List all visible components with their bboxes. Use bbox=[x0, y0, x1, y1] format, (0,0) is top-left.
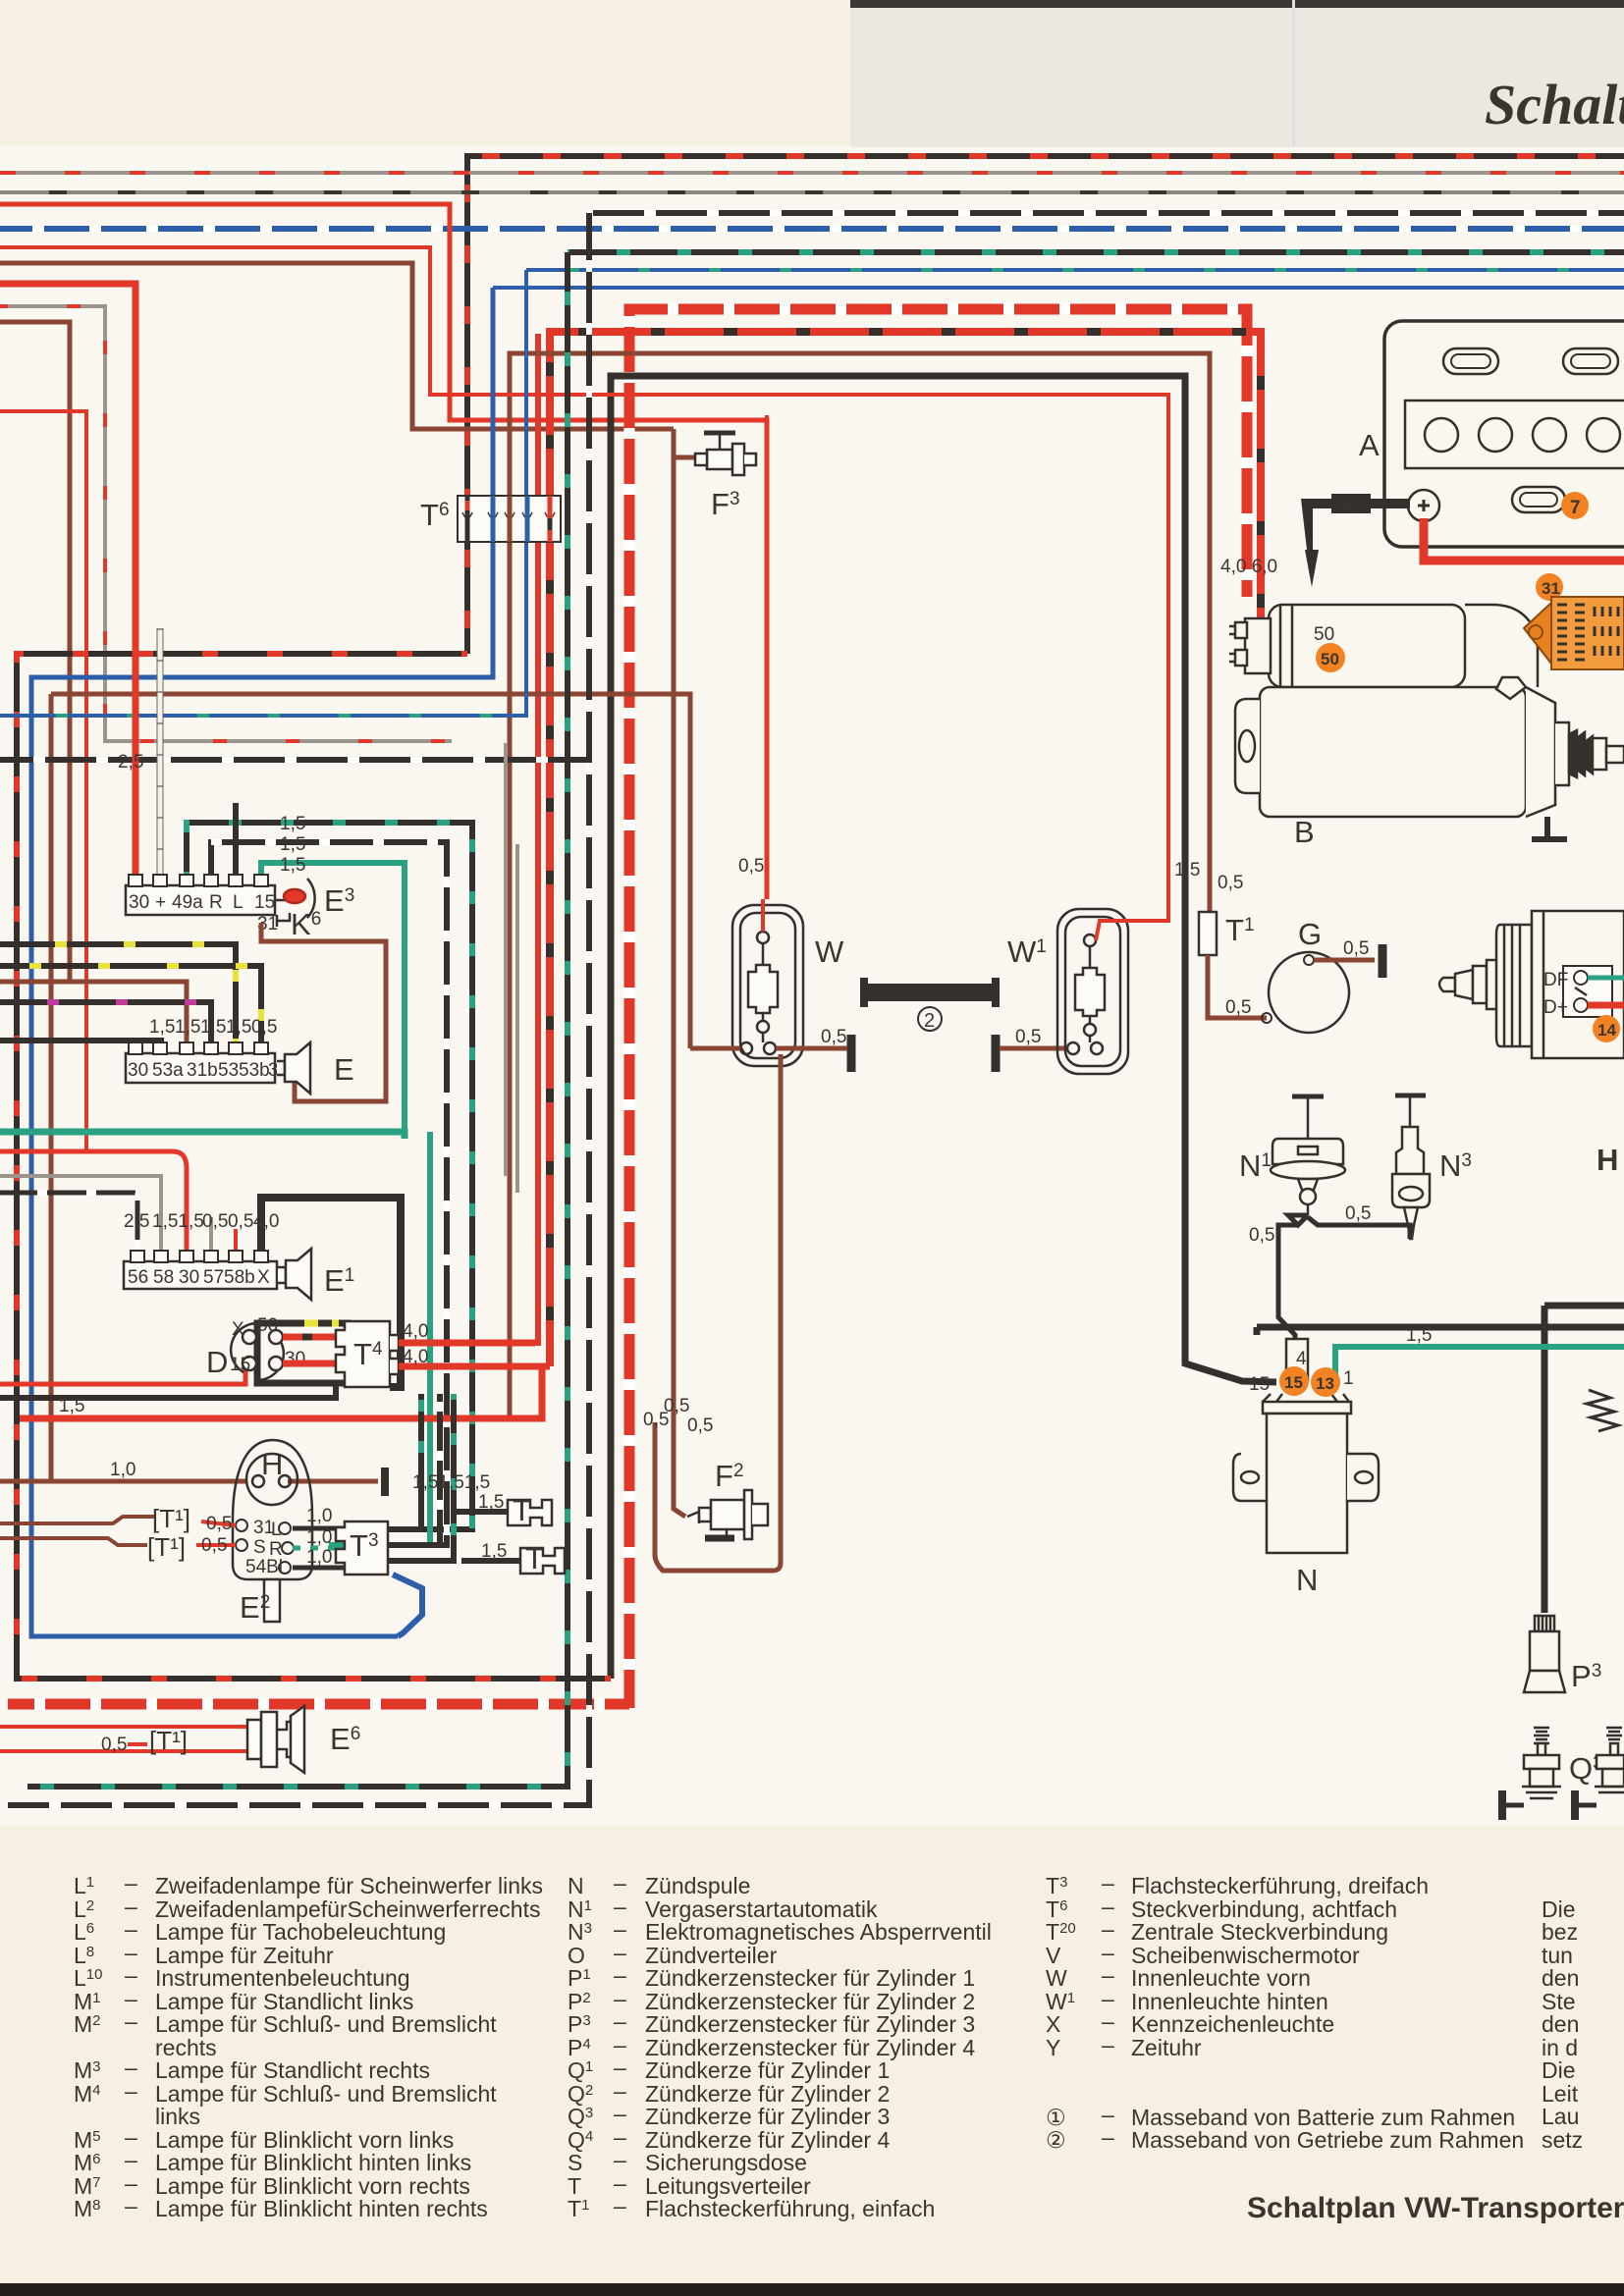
svg-text:Innenleuchte vorn: Innenleuchte vorn bbox=[1131, 1965, 1311, 1991]
svg-text:1,5: 1,5 bbox=[226, 1017, 251, 1038]
svg-text:15: 15 bbox=[254, 892, 275, 913]
svg-text:Elektromagnetisches Absperrven: Elektromagnetisches Absperrventil bbox=[645, 1919, 992, 1945]
wire black 1,5 to T4 bbox=[0, 1374, 336, 1398]
svg-text:31: 31 bbox=[1542, 579, 1560, 598]
wire black 4,0 E1 X loop to T4 bbox=[261, 1198, 401, 1387]
svg-text:B: B bbox=[1294, 815, 1315, 849]
svg-text:Flachsteckerführung, einfach: Flachsteckerführung, einfach bbox=[645, 2196, 935, 2221]
svg-text:Zündkerzenstecker für Zylinder: Zündkerzenstecker für Zylinder 1 bbox=[645, 1965, 975, 1991]
svg-text:X: X bbox=[232, 1319, 244, 1340]
E2 terminals bbox=[236, 1520, 294, 1574]
svg-text:L: L bbox=[233, 892, 244, 913]
svg-text:1: 1 bbox=[1343, 1368, 1354, 1389]
wire black to coil circuit bbox=[611, 376, 1276, 1679]
wire E3 49a black/green 1,5 bbox=[187, 823, 472, 1529]
wire black/white bbox=[589, 210, 1624, 216]
svg-text:0,5: 0,5 bbox=[738, 856, 764, 877]
wire red T4 hangers bbox=[399, 334, 538, 1343]
battery A bbox=[1384, 321, 1624, 547]
svg-text:+: + bbox=[155, 892, 166, 913]
svg-text:L: L bbox=[271, 1520, 282, 1540]
wire brown W loop left bbox=[51, 694, 690, 1048]
distributor G bbox=[1269, 952, 1349, 1033]
svg-text:4: 4 bbox=[1296, 1349, 1307, 1369]
svg-text:②: ② bbox=[1046, 2127, 1066, 2153]
connector E3 bbox=[126, 875, 275, 915]
wire red to E1 30 bbox=[0, 1151, 187, 1253]
wire generator DF green bbox=[1588, 976, 1624, 981]
svg-text:2,5: 2,5 bbox=[124, 1211, 149, 1232]
wire blue/white bbox=[0, 226, 1624, 232]
wire red 1,5 left bbox=[0, 1369, 245, 1384]
svg-text:–: – bbox=[1102, 1916, 1114, 1942]
wire N1/N3 black 0,5 bbox=[1278, 1215, 1410, 1339]
wire generator D+ red bbox=[1588, 1002, 1624, 1009]
svg-text:4,0: 4,0 bbox=[403, 1321, 428, 1342]
svg-text:Flachsteckerführung, dreifach: Flachsteckerführung, dreifach bbox=[1131, 1873, 1429, 1898]
svg-text:56: 56 bbox=[128, 1267, 148, 1288]
wire brown left upper bbox=[0, 263, 674, 429]
wire black/red mid-left bbox=[17, 654, 611, 1679]
svg-text:57: 57 bbox=[203, 1267, 224, 1288]
wire G to ground bbox=[1314, 958, 1375, 963]
wire red/white thick main bbox=[629, 309, 1247, 1708]
svg-text:–: – bbox=[614, 1916, 626, 1942]
connector T3 bbox=[336, 1522, 388, 1575]
svg-text:Die: Die bbox=[1542, 2057, 1576, 2083]
svg-text:1,5: 1,5 bbox=[59, 1396, 84, 1416]
wire T3 outputs black/green weave bbox=[388, 1394, 520, 1561]
svg-text:–: – bbox=[614, 2055, 626, 2080]
svg-text:0,5: 0,5 bbox=[1343, 938, 1369, 959]
wire E3 R black/white bbox=[211, 842, 447, 1545]
ignition coil N bbox=[1233, 1339, 1379, 1553]
svg-text:T: T bbox=[513, 1493, 531, 1527]
wire W1 red top bbox=[1096, 921, 1168, 940]
svg-text:Lampe für Standlicht rechts: Lampe für Standlicht rechts bbox=[155, 2057, 430, 2083]
orange dot 13 bbox=[1311, 1367, 1340, 1397]
valve N3 bbox=[1392, 1095, 1430, 1239]
wire blue solid bbox=[493, 286, 1624, 290]
svg-text:–: – bbox=[125, 2055, 137, 2080]
wire E3 L black bbox=[233, 803, 239, 877]
pinion gear bbox=[1569, 730, 1593, 777]
svg-text:1,5: 1,5 bbox=[280, 855, 305, 876]
svg-text:1,0: 1,0 bbox=[306, 1527, 332, 1548]
svg-text:0,5: 0,5 bbox=[1225, 997, 1251, 1018]
svg-text:1,5: 1,5 bbox=[200, 1017, 226, 1038]
svg-text:–: – bbox=[614, 1870, 626, 1896]
svg-text:1,0: 1,0 bbox=[110, 1460, 135, 1480]
svg-text:1,5: 1,5 bbox=[1174, 860, 1200, 881]
svg-text:0,5: 0,5 bbox=[1015, 1027, 1041, 1047]
wire red/black into starter bbox=[1233, 332, 1261, 640]
svg-text:D: D bbox=[206, 1345, 228, 1379]
wire black/magenta to E 31b bbox=[0, 1002, 211, 1044]
svg-text:1,0: 1,0 bbox=[306, 1506, 332, 1526]
wire red/black to starter 50 bbox=[550, 332, 1276, 1366]
svg-text:0,5: 0,5 bbox=[1218, 873, 1243, 893]
wire blue/green thin bbox=[526, 268, 1624, 272]
svg-text:setz: setz bbox=[1542, 2127, 1583, 2153]
svg-text:S: S bbox=[568, 2150, 582, 2175]
svg-text:–: – bbox=[614, 1962, 626, 1988]
svg-text:4,0: 4,0 bbox=[403, 1347, 428, 1367]
wire E3 15 teal 1,5 bbox=[261, 863, 405, 1132]
starter B bbox=[1229, 605, 1624, 817]
svg-text:Lampe für Tachobeleuchtung: Lampe für Tachobeleuchtung bbox=[155, 1919, 446, 1945]
svg-text:links: links bbox=[155, 2104, 200, 2129]
svg-text:T: T bbox=[525, 1541, 544, 1575]
svg-text:Sicherungsdose: Sicherungsdose bbox=[645, 2150, 807, 2175]
svg-text:Schaltplan VW-Transporter: Schaltplan VW-Transporter bbox=[1247, 2192, 1624, 2224]
svg-text:0,5: 0,5 bbox=[101, 1735, 127, 1755]
wire teal E2 branch bbox=[329, 1132, 430, 1545]
svg-text:0,5: 0,5 bbox=[821, 1027, 846, 1047]
svg-text:–: – bbox=[614, 2147, 626, 2172]
svg-text:Zündspule: Zündspule bbox=[645, 1873, 750, 1898]
wire yellow dash above bbox=[304, 1320, 339, 1327]
svg-text:Zweifadenlampe für Scheinwerfe: Zweifadenlampe für Scheinwerfer links bbox=[155, 1873, 543, 1898]
connector T single upper bbox=[508, 1500, 552, 1525]
wire grey/red left bbox=[0, 306, 452, 741]
svg-text:25,0: 25,0 bbox=[1333, 495, 1366, 513]
spark plug Q3 bbox=[1522, 1728, 1561, 1798]
svg-text:30: 30 bbox=[128, 1060, 148, 1081]
svg-text:54Bl: 54Bl bbox=[245, 1557, 283, 1577]
svg-text:0,5: 0,5 bbox=[1345, 1203, 1371, 1224]
svg-text:15: 15 bbox=[230, 1355, 250, 1375]
svg-text:N: N bbox=[1296, 1563, 1318, 1597]
starter ground bbox=[1532, 817, 1567, 839]
svg-text:–: – bbox=[1102, 1870, 1114, 1896]
svg-text:1,5: 1,5 bbox=[481, 1541, 507, 1562]
connector E1 bbox=[124, 1251, 277, 1289]
buzzer E symbol bbox=[277, 1042, 310, 1094]
svg-text:1,51,5: 1,51,5 bbox=[152, 1211, 204, 1232]
wire red/white bottom horizontal bbox=[8, 1699, 629, 1710]
wire grey/black bbox=[0, 190, 1624, 194]
svg-text:Lampe für Schluß- und Bremslic: Lampe für Schluß- und Bremslicht bbox=[155, 2081, 497, 2107]
connector T1 fuse holder bbox=[1199, 912, 1217, 955]
svg-text:R: R bbox=[209, 892, 223, 913]
wire W red top bbox=[763, 415, 767, 932]
top light band right bbox=[850, 0, 1624, 147]
svg-text:Lampe für Blinklicht hinten re: Lampe für Blinklicht hinten rechts bbox=[155, 2196, 488, 2221]
ground bar right of H bbox=[381, 1468, 389, 1496]
svg-text:Zündkerzenstecker für Zylinder: Zündkerzenstecker für Zylinder 3 bbox=[645, 2011, 975, 2037]
wire black/white mid-left bbox=[0, 757, 589, 763]
svg-text:50: 50 bbox=[1321, 650, 1339, 668]
interior light W1 bbox=[1057, 909, 1128, 1074]
wire red thin to W1 bbox=[0, 247, 1168, 921]
svg-text:X: X bbox=[257, 1267, 270, 1288]
svg-text:[T¹]: [T¹] bbox=[149, 1726, 188, 1755]
wire brown T1 to G bbox=[1208, 955, 1267, 1018]
spring squiggle bbox=[1587, 1390, 1618, 1431]
svg-text:1,51,51,5: 1,51,51,5 bbox=[412, 1472, 490, 1493]
wire blue loop bbox=[31, 288, 493, 1636]
svg-text:X: X bbox=[1046, 2011, 1060, 2037]
diagram area lighter background bbox=[0, 145, 1624, 1826]
svg-text:–: – bbox=[125, 2078, 137, 2104]
wire red pair to E6 bbox=[0, 1727, 247, 1751]
svg-text:31b: 31b bbox=[187, 1060, 218, 1081]
switch D bbox=[231, 1323, 284, 1380]
svg-text:A: A bbox=[1359, 428, 1380, 462]
svg-text:–: – bbox=[1102, 2124, 1114, 2150]
wire blue from T3 down-left bbox=[393, 1575, 422, 1636]
orange dot 31 bbox=[1536, 573, 1563, 601]
wire black/green vertical long bbox=[27, 252, 568, 1787]
svg-text:Zentrale Steckverbindung: Zentrale Steckverbindung bbox=[1131, 1919, 1388, 1945]
svg-text:1,5: 1,5 bbox=[280, 814, 305, 834]
svg-text:N: N bbox=[568, 1873, 584, 1898]
svg-text:49a: 49a bbox=[172, 892, 203, 913]
wire brown 1,0 to H bbox=[0, 1479, 245, 1484]
svg-text:Zündkerze für Zylinder 3: Zündkerze für Zylinder 3 bbox=[645, 2104, 890, 2129]
svg-text:Zeituhr: Zeituhr bbox=[1131, 2035, 1202, 2060]
spark plug Q4 cut at edge bbox=[1595, 1728, 1624, 1792]
solenoid bbox=[1269, 605, 1465, 687]
svg-text:4,0 6,0: 4,0 6,0 bbox=[1220, 557, 1277, 577]
svg-text:bez: bez bbox=[1542, 1919, 1578, 1945]
svg-text:53a: 53a bbox=[152, 1060, 184, 1081]
svg-text:–: – bbox=[125, 1870, 137, 1896]
svg-text:[T¹]: [T¹] bbox=[152, 1504, 190, 1533]
svg-text:30: 30 bbox=[129, 892, 149, 913]
svg-text:S: S bbox=[253, 1537, 266, 1558]
svg-text:D+: D+ bbox=[1543, 997, 1568, 1018]
svg-text:Lau: Lau bbox=[1542, 2104, 1579, 2129]
svg-text:–: – bbox=[125, 1916, 137, 1942]
svg-text:1,5: 1,5 bbox=[478, 1492, 504, 1513]
svg-text:53b: 53b bbox=[239, 1060, 270, 1081]
wire grey to E1 57 bbox=[209, 1217, 213, 1253]
svg-text:0,5: 0,5 bbox=[664, 1396, 689, 1416]
svg-text:–: – bbox=[1102, 2008, 1114, 2034]
svg-text:–: – bbox=[125, 2193, 137, 2218]
wire red stub E1 58b bbox=[234, 1229, 238, 1253]
masseband 2 bbox=[864, 978, 996, 1007]
svg-text:[T¹]: [T¹] bbox=[147, 1532, 186, 1562]
wire grey to E1 58 bbox=[0, 1176, 161, 1253]
svg-text:Y: Y bbox=[1046, 2035, 1060, 2060]
wire blue/green long bbox=[0, 270, 526, 716]
svg-text:50: 50 bbox=[1314, 624, 1334, 645]
wire teal thick E1 row bbox=[0, 1132, 405, 1139]
wire E2 to T3 green/black 1,0 bbox=[293, 1528, 345, 1568]
svg-text:–: – bbox=[1102, 2032, 1114, 2057]
svg-text:7: 7 bbox=[1570, 498, 1581, 518]
svg-text:–: – bbox=[125, 1962, 137, 1988]
connector T6 bbox=[458, 496, 561, 542]
wire black to coil horizontal right bbox=[1257, 1324, 1624, 1331]
svg-text:0,5: 0,5 bbox=[228, 1211, 253, 1232]
svg-text:2,5: 2,5 bbox=[118, 752, 143, 773]
interior light W bbox=[732, 905, 803, 1066]
wire grey vertical mid bbox=[504, 743, 508, 1176]
svg-text:G: G bbox=[1298, 917, 1322, 951]
wire red thin left bbox=[0, 411, 86, 1151]
wire E row horizontals bbox=[0, 944, 261, 1044]
wire brown left bbox=[0, 322, 70, 982]
svg-text:–: – bbox=[125, 2008, 137, 2034]
ground bar Q3 bbox=[1498, 1790, 1506, 1820]
motor body bbox=[1465, 605, 1538, 687]
orange dot 50 bbox=[1316, 643, 1345, 672]
svg-text:0,5: 0,5 bbox=[201, 1535, 227, 1556]
wire black junction down to P3 bbox=[1542, 1327, 1548, 1613]
ground bar W1 left bbox=[992, 1035, 1001, 1072]
svg-text:58b: 58b bbox=[224, 1267, 255, 1288]
svg-text:H: H bbox=[261, 1447, 283, 1481]
orange dot 7 bbox=[1561, 492, 1589, 519]
plug connector P3 bbox=[1524, 1616, 1565, 1692]
lamp E1 symbol bbox=[278, 1249, 311, 1300]
svg-text:Kennzeichenleuchte: Kennzeichenleuchte bbox=[1131, 2011, 1334, 2037]
connector T4 bbox=[336, 1321, 399, 1387]
svg-text:1,0: 1,0 bbox=[306, 1547, 332, 1568]
wire black/yellow to E 53 bbox=[0, 944, 236, 1044]
svg-text:0,5: 0,5 bbox=[251, 1017, 277, 1038]
svg-text:1,5: 1,5 bbox=[175, 1017, 200, 1038]
svg-text:0,5: 0,5 bbox=[202, 1211, 228, 1232]
orange dot 15 bbox=[1279, 1366, 1309, 1396]
svg-text:–: – bbox=[614, 2008, 626, 2034]
generator (dynamo) right bbox=[1439, 911, 1624, 1058]
svg-text:13: 13 bbox=[1316, 1374, 1334, 1393]
svg-text:Lampe für Schluß- und Bremslic: Lampe für Schluß- und Bremslicht bbox=[155, 2011, 497, 2037]
svg-text:1,5: 1,5 bbox=[149, 1017, 175, 1038]
wire segments through T6 bbox=[467, 496, 550, 542]
svg-text:DF: DF bbox=[1543, 970, 1568, 990]
wire E3 pin30 red vertical bbox=[133, 284, 139, 877]
switch F3 bbox=[695, 433, 756, 475]
connector T single lower bbox=[520, 1548, 565, 1574]
wire black/white to E1 56 bbox=[0, 1193, 137, 1253]
wire green 1,5 to coil bbox=[1335, 1347, 1624, 1378]
wire brown to T1 bbox=[510, 353, 1210, 1418]
wire brown to E 53a bbox=[0, 982, 187, 1044]
wire brown loop E3-31 to E-31 bbox=[261, 923, 386, 1101]
wire black/green bbox=[568, 249, 1624, 255]
svg-text:W: W bbox=[815, 934, 844, 969]
svg-text:E: E bbox=[334, 1052, 354, 1087]
bottom black bar bbox=[0, 2283, 1624, 2296]
svg-text:–: – bbox=[125, 2147, 137, 2172]
svg-text:58: 58 bbox=[153, 1267, 174, 1288]
svg-text:–: – bbox=[614, 2193, 626, 2218]
wire E3 pin+ white 2,5 bbox=[158, 628, 163, 877]
wire grey/red 1 bbox=[0, 171, 1624, 175]
svg-text:Instrumentenbeleuchtung: Instrumentenbeleuchtung bbox=[155, 1965, 410, 1991]
svg-text:2: 2 bbox=[924, 1010, 935, 1032]
svg-text:50: 50 bbox=[257, 1315, 278, 1336]
svg-text:–: – bbox=[614, 2101, 626, 2126]
svg-text:Schaltplan: Schaltplan bbox=[1485, 73, 1624, 136]
wire black/white vertical long bbox=[8, 213, 589, 1805]
wire brown F3 bbox=[674, 429, 698, 1517]
wire W bottom brown stubs bbox=[655, 1048, 815, 1571]
fuse box S bbox=[1524, 597, 1624, 669]
svg-text:30: 30 bbox=[179, 1267, 199, 1288]
wire red 2,5 left loop bbox=[0, 284, 135, 877]
svg-text:Lampe für Blinklicht hinten li: Lampe für Blinklicht hinten links bbox=[155, 2150, 471, 2175]
wire [T1] rows left of E2 bbox=[0, 1517, 236, 1545]
svg-text:0,5: 0,5 bbox=[1249, 1225, 1274, 1246]
lamp K6 indicator bbox=[275, 879, 315, 927]
wire T4 red 4,0 outputs bbox=[20, 1343, 550, 1418]
svg-text:15: 15 bbox=[1249, 1374, 1270, 1395]
svg-text:–: – bbox=[1102, 1962, 1114, 1988]
buzzer E6 bbox=[247, 1706, 304, 1773]
svg-text:4,0: 4,0 bbox=[253, 1211, 279, 1232]
wire battery red + cable bbox=[1424, 518, 1624, 561]
wire D to T4 red pair bbox=[283, 1323, 345, 1363]
battery plus terminal bbox=[1408, 490, 1439, 521]
svg-text:14: 14 bbox=[1597, 1021, 1616, 1040]
orange dot 14 bbox=[1593, 1015, 1620, 1042]
switch D housing bbox=[257, 1323, 348, 1383]
svg-text:den: den bbox=[1542, 1965, 1579, 1991]
svg-text:1,5: 1,5 bbox=[280, 834, 305, 855]
wire battery black 25,0 bbox=[1306, 499, 1410, 508]
wire red solid upper bbox=[0, 204, 767, 899]
svg-text:den: den bbox=[1542, 2011, 1579, 2037]
svg-text:W: W bbox=[1046, 1965, 1067, 1991]
wire black/red top bbox=[467, 156, 1624, 654]
connector E bbox=[126, 1042, 275, 1083]
switch F2 bbox=[687, 1490, 768, 1539]
svg-text:Masseband von Getriebe zum Rah: Masseband von Getriebe zum Rahmen bbox=[1131, 2127, 1524, 2153]
svg-text:0,5: 0,5 bbox=[206, 1514, 232, 1534]
choke N1 bbox=[1271, 1096, 1345, 1215]
svg-text:H: H bbox=[1597, 1143, 1618, 1177]
wire black/yellow to E 53b bbox=[0, 966, 261, 1044]
switch E2 body bbox=[233, 1440, 312, 1622]
wire black to E 30 bbox=[0, 1041, 161, 1044]
svg-text:Zündkerze für Zylinder 1: Zündkerze für Zylinder 1 bbox=[645, 2057, 890, 2083]
svg-text:1,5: 1,5 bbox=[1406, 1325, 1432, 1346]
svg-text:53: 53 bbox=[218, 1060, 239, 1081]
svg-text:0,5: 0,5 bbox=[687, 1415, 713, 1436]
ground bar W bbox=[847, 1035, 856, 1072]
svg-text:15: 15 bbox=[1284, 1373, 1303, 1392]
